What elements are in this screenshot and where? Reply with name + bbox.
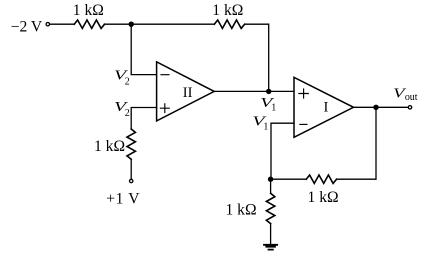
op-amp II minus pin sign bbox=[161, 74, 169, 76]
svg-text:I: I bbox=[323, 99, 328, 115]
terminal +1V bbox=[130, 179, 133, 182]
wire op-amp II output bbox=[214, 90, 294, 92]
terminal -2V bbox=[46, 23, 49, 26]
svg-text:1: 1 bbox=[271, 103, 276, 114]
resistor R4 1 kOhm feedback bbox=[306, 175, 336, 183]
svg-text:1 kΩ: 1 kΩ bbox=[225, 202, 256, 219]
wire bbox=[131, 108, 156, 130]
node V1 junction bbox=[266, 89, 271, 94]
wire bbox=[271, 178, 307, 180]
svg-text:1 kΩ: 1 kΩ bbox=[73, 2, 104, 19]
wire bbox=[337, 107, 376, 179]
op-amp U1 (I) triangle bbox=[294, 77, 354, 137]
wire op-amp I output bbox=[354, 106, 408, 108]
svg-text:2: 2 bbox=[125, 76, 130, 87]
resistor R3 1 kOhm vertical bbox=[127, 129, 135, 159]
svg-text:2: 2 bbox=[125, 108, 130, 119]
wire bbox=[105, 23, 215, 25]
svg-text:−2 V: −2 V bbox=[11, 19, 43, 36]
node output junction bbox=[373, 105, 378, 110]
terminal Vout bbox=[408, 106, 411, 109]
wire bbox=[131, 24, 156, 74]
node feedback junction bbox=[268, 177, 273, 182]
svg-text:II: II bbox=[183, 85, 193, 101]
wire op-amp I inverting input bbox=[271, 123, 294, 179]
wire bbox=[50, 23, 74, 25]
svg-text:1 kΩ: 1 kΩ bbox=[94, 138, 125, 155]
op-amp U2 (II) triangle bbox=[157, 62, 215, 121]
svg-text:1: 1 bbox=[263, 121, 268, 132]
node junction top bbox=[129, 22, 134, 27]
op-amp I plus pin sign bbox=[299, 89, 308, 98]
op-amp II plus pin sign bbox=[160, 104, 169, 113]
wire bbox=[270, 179, 272, 193]
svg-text:1 kΩ: 1 kΩ bbox=[212, 2, 243, 19]
ground bbox=[264, 245, 277, 250]
op-amp I minus pin sign bbox=[300, 123, 307, 125]
resistor R5 1 kOhm to ground bbox=[266, 193, 274, 223]
resistor R2 1 kOhm bbox=[214, 20, 244, 28]
wire bbox=[245, 24, 269, 91]
wire bbox=[270, 224, 272, 244]
svg-text:+1 V: +1 V bbox=[106, 191, 140, 208]
resistor R1 1 kOhm bbox=[74, 20, 104, 28]
svg-text:out: out bbox=[405, 92, 418, 103]
wire bbox=[130, 159, 132, 179]
svg-text:1 kΩ: 1 kΩ bbox=[308, 189, 339, 206]
